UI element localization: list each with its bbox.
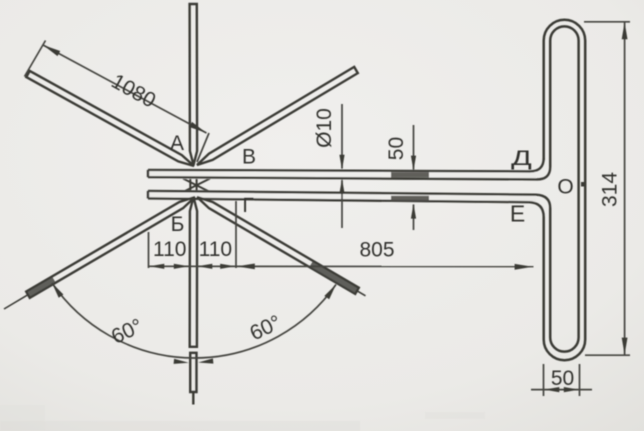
svg-text:Е: Е [510,201,525,227]
svg-text:110: 110 [153,238,186,261]
svg-text:50: 50 [385,137,408,160]
svg-text:Г: Г [242,194,253,217]
svg-text:О: О [557,176,573,199]
svg-text:50: 50 [551,367,574,390]
svg-text:Д: Д [511,146,532,170]
svg-text:805: 805 [359,239,394,262]
svg-text:А: А [170,132,184,155]
svg-text:В: В [242,146,256,169]
svg-text:Ø10: Ø10 [313,108,336,148]
svg-text:110: 110 [199,238,232,261]
svg-text:314: 314 [599,172,622,207]
svg-text:Б: Б [171,213,185,236]
